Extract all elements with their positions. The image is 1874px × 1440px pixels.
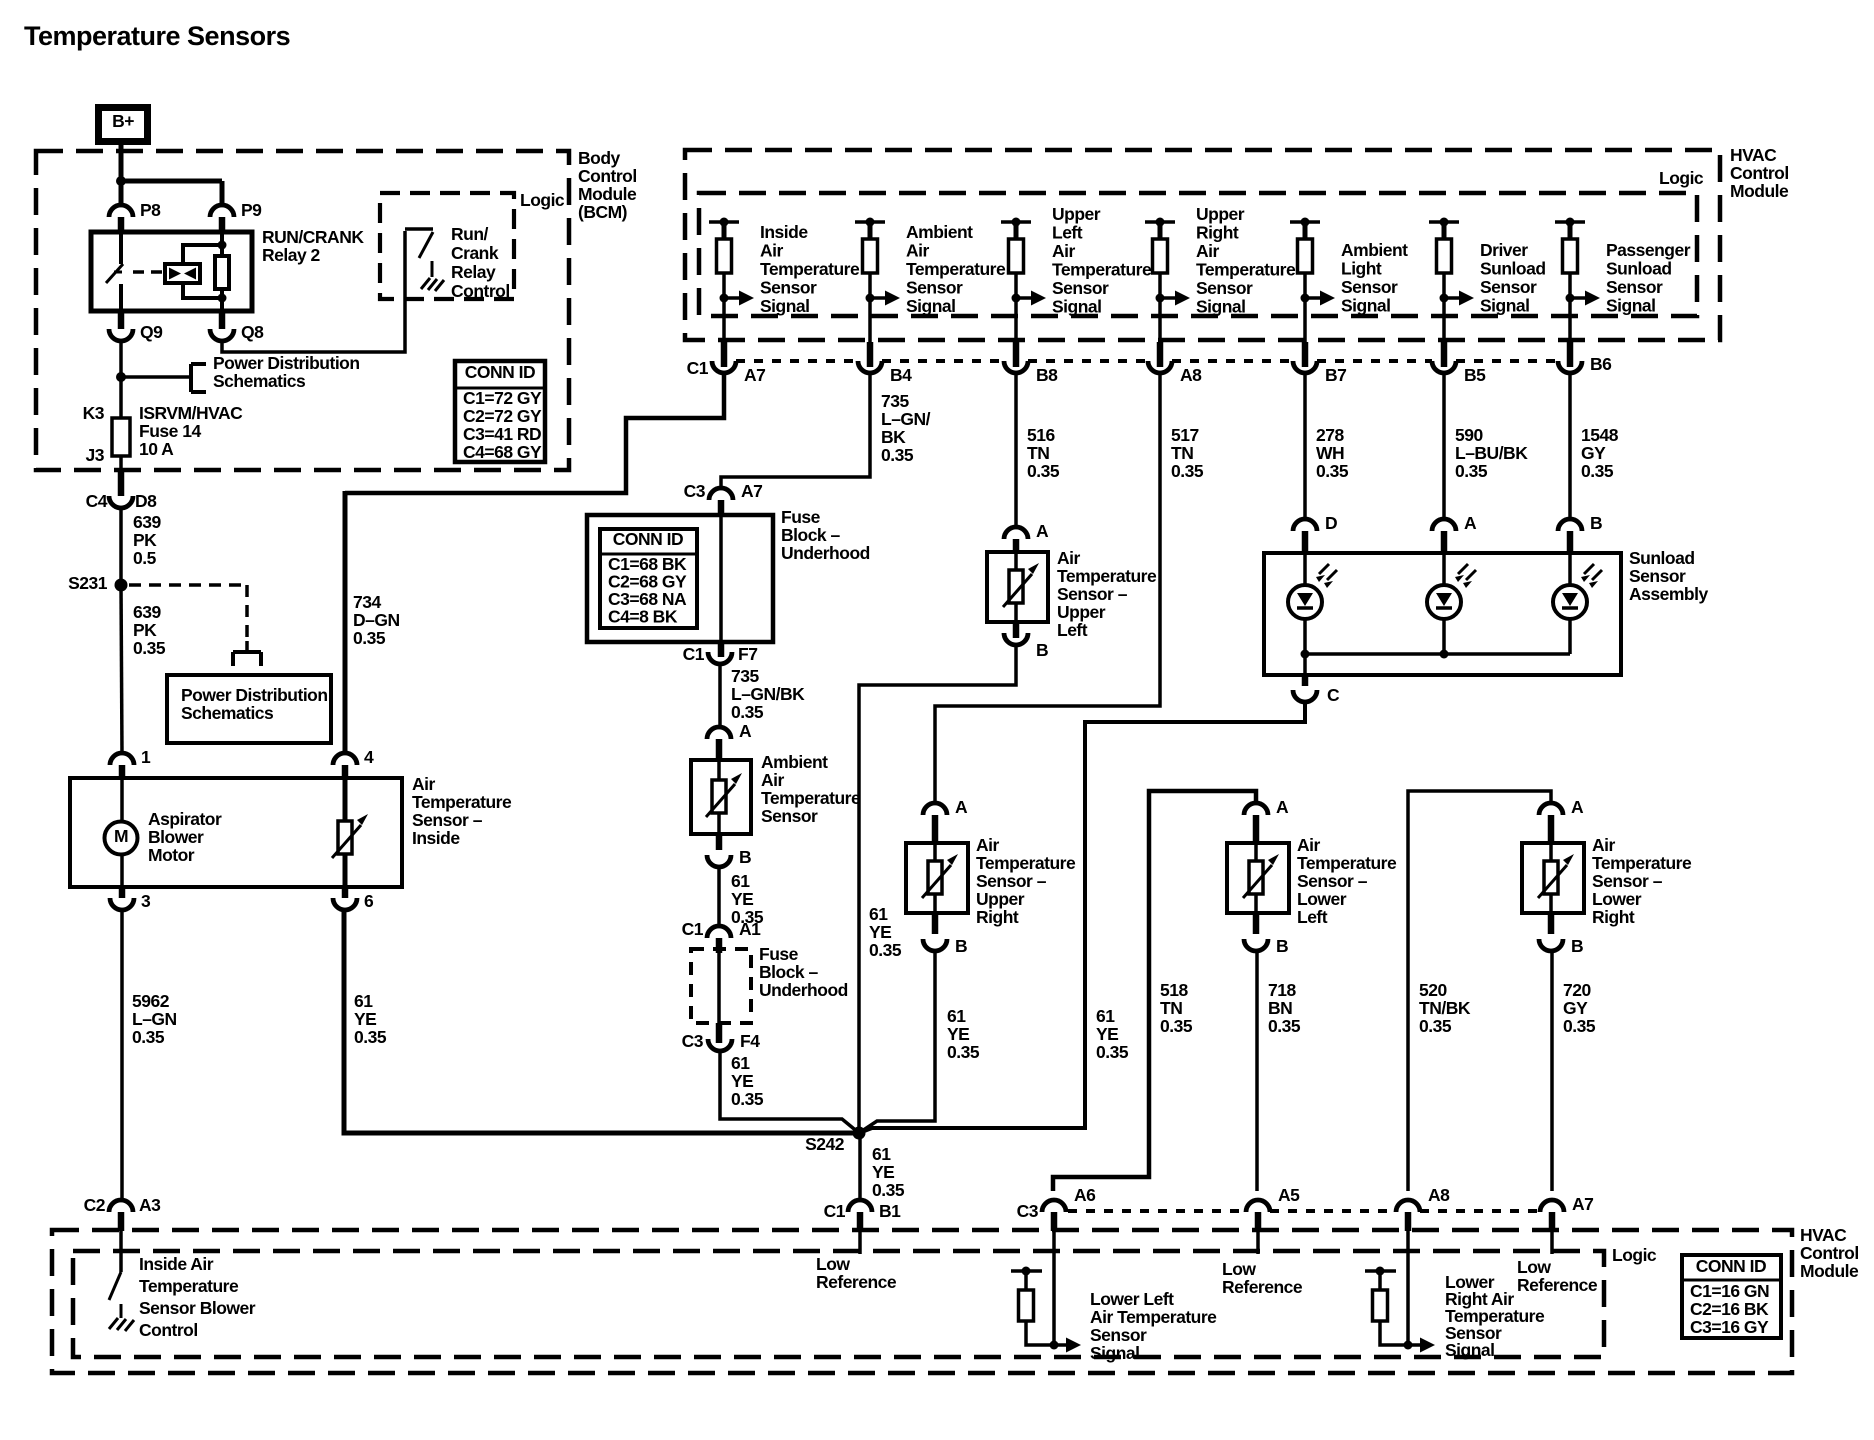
svg-text:Assembly: Assembly [1629, 584, 1708, 604]
label Air Temperature Sensor - Lower Right [1592, 835, 1692, 927]
svg-text:Lower: Lower [1297, 889, 1347, 909]
label Air Temperature Sensor - Upper Left [1057, 548, 1157, 640]
svg-text:517: 517 [1171, 425, 1199, 445]
svg-text:0.35: 0.35 [731, 1089, 764, 1109]
svg-text:Left: Left [1052, 223, 1083, 243]
pin label A8 [1180, 365, 1202, 385]
svg-text:A: A [1571, 797, 1584, 817]
connector B6 [1558, 342, 1582, 373]
svg-text:5962: 5962 [132, 991, 170, 1011]
svg-text:B1: B1 [879, 1201, 901, 1221]
svg-text:C: C [1327, 685, 1340, 705]
wire 718 BN [1255, 951, 1259, 1191]
svg-text:A: A [955, 797, 968, 817]
svg-text:Low: Low [1517, 1257, 1551, 1277]
svg-text:WH: WH [1316, 443, 1344, 463]
relay resistor [215, 256, 229, 289]
connector P8 [109, 200, 161, 233]
svg-text:PK: PK [133, 620, 157, 640]
Run/Crank Relay Control logic box [380, 193, 514, 299]
connector C1 A1 [682, 919, 762, 953]
svg-text:Sensor: Sensor [1629, 566, 1686, 586]
svg-text:RUN/CRANK: RUN/CRANK [262, 227, 364, 247]
title [24, 21, 290, 51]
svg-text:518: 518 [1160, 980, 1188, 1000]
svg-text:Control: Control [1800, 1243, 1859, 1263]
sensor signal input resistor (Upper Right) [1145, 218, 1190, 343]
label 61 YE 0.35 (upper left) [869, 904, 902, 960]
connector C4 D8 [86, 470, 158, 511]
connector B (upper left) [1004, 622, 1048, 660]
svg-text:YE: YE [869, 922, 891, 942]
svg-text:J3: J3 [86, 445, 105, 465]
svg-text:CONN ID: CONN ID [613, 529, 683, 549]
wire 61 YE blower [344, 910, 853, 1133]
label Logic (bottom) [1612, 1245, 1657, 1265]
connector 1 [110, 747, 151, 778]
svg-text:S231: S231 [68, 573, 108, 593]
svg-text:Control: Control [139, 1320, 198, 1340]
svg-text:1: 1 [141, 747, 151, 767]
relay coil link dashed [133, 270, 163, 274]
svg-text:Schematics: Schematics [213, 371, 306, 391]
connector dashed line (bottom row) [1068, 1209, 1540, 1213]
connector B5 [1432, 342, 1456, 373]
svg-text:Inside: Inside [760, 222, 808, 242]
svg-text:Sensor –: Sensor – [1057, 584, 1128, 604]
svg-text:Sensor: Sensor [1606, 277, 1663, 297]
label 1548 GY 0.35 [1581, 425, 1619, 481]
svg-text:C1: C1 [824, 1201, 846, 1221]
svg-text:Upper: Upper [1052, 204, 1101, 224]
wire F4 to S242 [720, 1051, 859, 1133]
svg-text:0.35: 0.35 [1563, 1016, 1596, 1036]
svg-text:Sensor Blower: Sensor Blower [139, 1298, 256, 1318]
label Air Temperature Sensor - Lower Left [1297, 835, 1397, 927]
Body Control Module (BCM) boundary [36, 151, 569, 470]
svg-text:Ambient: Ambient [761, 752, 828, 772]
pin J3 [86, 445, 105, 465]
svg-text:Left: Left [1057, 620, 1088, 640]
svg-text:Air: Air [760, 241, 784, 261]
svg-text:Underhood: Underhood [781, 543, 870, 563]
svg-text:Fuse: Fuse [781, 507, 821, 527]
wire to power distribution ref [121, 375, 191, 379]
label Low Reference (A5) [1222, 1259, 1303, 1297]
svg-text:0.35: 0.35 [1419, 1016, 1452, 1036]
label Logic (BCM) [520, 190, 565, 210]
svg-text:Run/: Run/ [451, 224, 489, 244]
label C1 (HVAC top) [687, 358, 709, 378]
Power Distribution Schematics box [167, 675, 331, 743]
svg-text:Module: Module [1730, 181, 1789, 201]
wire P9 to resistor [220, 233, 224, 311]
Air Temperature Sensor - Upper Left box [987, 552, 1048, 622]
svg-text:YE: YE [947, 1024, 969, 1044]
svg-text:Body: Body [578, 148, 621, 168]
label 517 TN 0.35 [1171, 425, 1204, 481]
label HVAC Control Module (bottom) [1800, 1225, 1859, 1281]
wire 734 D-GN vertical [343, 491, 348, 754]
svg-text:C3: C3 [684, 481, 706, 501]
wire B+ to splice [119, 145, 124, 181]
fuse K3 ISRVM/HVAC Fuse 14 [112, 418, 130, 456]
svg-text:734: 734 [353, 592, 381, 612]
thermistor Air Temperature Sensor - Inside [332, 814, 368, 858]
svg-text:61: 61 [354, 991, 373, 1011]
svg-text:Sensor –: Sensor – [976, 871, 1047, 891]
svg-text:YE: YE [354, 1009, 376, 1029]
svg-text:C2=16 BK: C2=16 BK [1690, 1299, 1769, 1319]
svg-text:YE: YE [1096, 1024, 1118, 1044]
relay coil wiring [183, 245, 222, 298]
svg-text:Module: Module [1800, 1261, 1859, 1281]
svg-text:Motor: Motor [148, 845, 195, 865]
label 639 PK 0.5 [133, 512, 161, 568]
svg-text:Low: Low [1222, 1259, 1256, 1279]
svg-text:B: B [1276, 936, 1288, 956]
wire upper left B to S242 [859, 645, 1016, 1133]
svg-text:Signal: Signal [1341, 296, 1391, 316]
lower left signal resistor [1011, 1267, 1081, 1353]
svg-text:C4=8 BK: C4=8 BK [608, 607, 678, 627]
svg-text:(BCM): (BCM) [578, 202, 627, 222]
Fuse Block - Underhood box [587, 515, 773, 642]
svg-text:516: 516 [1027, 425, 1055, 445]
svg-text:A8: A8 [1428, 1185, 1450, 1205]
wire through lower left sensor [1254, 843, 1258, 913]
svg-text:Logic: Logic [520, 190, 565, 210]
connector A5 [1246, 1185, 1300, 1231]
wire A8 to upper right sensor [935, 372, 1160, 804]
pin label B5 [1464, 365, 1486, 385]
connector C3 F4 [682, 1023, 761, 1051]
svg-text:Relay: Relay [451, 262, 496, 282]
Ambient Air Temperature Sensor box [691, 760, 751, 834]
HVAC Control Module boundary (bottom) [52, 1230, 1792, 1373]
svg-text:Signal: Signal [1606, 296, 1656, 316]
connector C3 A7 (fuse block) [684, 481, 763, 517]
svg-text:B: B [1571, 936, 1583, 956]
power distribution bracket [191, 364, 206, 392]
svg-text:Signal: Signal [1480, 296, 1530, 316]
svg-text:F7: F7 [738, 644, 757, 664]
svg-text:L–GN: L–GN [132, 1009, 177, 1029]
svg-text:Temperature: Temperature [976, 853, 1076, 873]
svg-text:0.35: 0.35 [133, 638, 166, 658]
svg-text:L–GN/BK: L–GN/BK [731, 684, 805, 704]
svg-text:735: 735 [731, 666, 759, 686]
connector B7 [1293, 342, 1317, 373]
svg-text:C4: C4 [86, 491, 108, 511]
svg-text:Reference: Reference [1222, 1277, 1303, 1297]
connector A (sunload) [1432, 513, 1477, 555]
svg-text:HVAC: HVAC [1730, 145, 1777, 165]
svg-text:Right: Right [976, 907, 1019, 927]
svg-text:0.35: 0.35 [1455, 461, 1488, 481]
label 735 L-GN/BK 0.35 [731, 666, 805, 722]
svg-text:A: A [739, 721, 752, 741]
wire 735 L-GN/BK [718, 664, 722, 728]
thermistor Air Temperature Sensor - Upper Left [1003, 563, 1039, 607]
svg-text:0.35: 0.35 [1268, 1016, 1301, 1036]
wire A7 low reference [1550, 1231, 1554, 1254]
svg-text:Signal: Signal [1445, 1340, 1495, 1360]
svg-text:0.35: 0.35 [354, 1027, 387, 1047]
pin K3 [83, 403, 105, 423]
svg-text:BN: BN [1268, 998, 1292, 1018]
node B+ branch [116, 176, 222, 206]
svg-text:Lower: Lower [1592, 889, 1642, 909]
label Inside Air Temperature Sensor Blower Control [139, 1254, 256, 1340]
svg-text:0.35: 0.35 [947, 1042, 980, 1062]
label 61 YE 0.35 (upper right) [947, 1006, 980, 1062]
svg-text:61: 61 [731, 1053, 750, 1073]
ground (logic) [421, 261, 444, 291]
svg-text:Q8: Q8 [241, 322, 264, 342]
wire A6 signal [1052, 1231, 1056, 1345]
svg-text:A7: A7 [1572, 1194, 1593, 1214]
svg-text:Aspirator: Aspirator [148, 809, 222, 829]
blower control switch [109, 1231, 121, 1300]
svg-text:A: A [1464, 513, 1477, 533]
svg-text:YE: YE [731, 1071, 753, 1091]
svg-text:Reference: Reference [816, 1272, 897, 1292]
svg-text:Block –: Block – [781, 525, 841, 545]
svg-text:Temperature: Temperature [761, 788, 861, 808]
svg-text:Signal: Signal [1052, 297, 1102, 317]
label 516 TN 0.35 [1027, 425, 1060, 481]
svg-text:720: 720 [1563, 980, 1591, 1000]
svg-text:Blower: Blower [148, 827, 204, 847]
wire sunload D branch [1303, 553, 1307, 654]
svg-text:Temperature Sensors: Temperature Sensors [24, 21, 290, 51]
label 61 YE 0.35 (S242) [872, 1144, 905, 1200]
svg-text:61: 61 [947, 1006, 966, 1026]
svg-text:0.35: 0.35 [731, 702, 764, 722]
svg-text:Power Distribution: Power Distribution [181, 685, 328, 705]
label 278 WH 0.35 [1316, 425, 1349, 481]
wire A8 signal [1406, 1231, 1410, 1345]
fuse block CONN ID table [600, 529, 697, 628]
svg-text:Q9: Q9 [140, 322, 163, 342]
pin label B6 [1590, 354, 1612, 374]
connector A8 [1148, 342, 1172, 373]
connector C2 A3 [84, 1195, 162, 1231]
label Inside Air Temperature Sensor Signal [760, 222, 860, 316]
svg-text:1548: 1548 [1581, 425, 1619, 445]
connector Q8 [210, 311, 264, 342]
svg-text:Logic: Logic [1612, 1245, 1657, 1265]
svg-text:520: 520 [1419, 980, 1447, 1000]
svg-text:0.35: 0.35 [869, 940, 902, 960]
svg-text:P8: P8 [140, 200, 161, 220]
photodiode (right) [1553, 564, 1602, 619]
svg-text:B: B [1036, 640, 1048, 660]
wire through dashed fuse block [717, 949, 721, 1023]
splice S231 [68, 573, 127, 593]
svg-text:61: 61 [1096, 1006, 1115, 1026]
svg-text:A7: A7 [741, 481, 762, 501]
svg-text:61: 61 [872, 1144, 891, 1164]
svg-text:Air: Air [761, 770, 785, 790]
label Driver Sunload Sensor Signal [1480, 240, 1546, 316]
wire to fuse [119, 377, 123, 420]
thermistor Ambient Air Temperature Sensor [706, 773, 742, 817]
svg-text:TN: TN [1171, 443, 1193, 463]
wire through lower right sensor [1549, 843, 1553, 913]
wire to P8 [119, 181, 124, 206]
label Ambient Light Sensor Signal [1341, 240, 1408, 316]
svg-text:Air: Air [412, 774, 436, 794]
connector B (lower left) [1244, 913, 1288, 956]
svg-text:Sensor: Sensor [760, 278, 817, 298]
svg-text:C3: C3 [682, 1031, 704, 1051]
Logic boundary (top) [699, 193, 1697, 316]
svg-text:Lower Left: Lower Left [1090, 1289, 1174, 1309]
relay switch pole [106, 233, 123, 311]
photodiode (middle) [1427, 564, 1476, 619]
svg-text:Reference: Reference [1517, 1275, 1598, 1295]
label Air Temperature Sensor - Upper Right [976, 835, 1076, 927]
svg-text:Temperature: Temperature [1052, 260, 1152, 280]
svg-text:B+: B+ [112, 111, 134, 131]
svg-text:D–GN: D–GN [353, 610, 400, 630]
label Fuse Block - Underhood [781, 507, 870, 563]
photodiode (left) [1288, 564, 1337, 619]
svg-text:A6: A6 [1074, 1185, 1096, 1205]
svg-text:0.35: 0.35 [872, 1180, 905, 1200]
relay coil [165, 264, 200, 283]
label 734 D-GN 0.35 [353, 592, 400, 648]
label Upper Right Air Temperature Sensor Signal [1196, 204, 1296, 317]
wire through fuse block [719, 515, 723, 642]
thermistor Air Temperature Sensor - Lower Left [1243, 854, 1279, 898]
wire 5962 L-GN [120, 910, 124, 1201]
wire sunload B branch [1568, 553, 1572, 654]
pin label B8 [1036, 365, 1058, 385]
wire 734 D-GN [345, 374, 724, 493]
sensor signal input resistor (Driver Sunload) [1429, 218, 1474, 343]
svg-text:L–BU/BK: L–BU/BK [1455, 443, 1528, 463]
svg-text:735: 735 [881, 391, 909, 411]
BCM CONN ID table [455, 361, 545, 462]
svg-text:A: A [1276, 797, 1289, 817]
svg-text:Signal: Signal [906, 296, 956, 316]
svg-text:C3=41 RD: C3=41 RD [463, 424, 541, 444]
lower right signal resistor [1365, 1267, 1435, 1353]
svg-text:CONN ID: CONN ID [465, 362, 535, 382]
svg-text:Power Distribution: Power Distribution [213, 353, 360, 373]
sunload common bus [1301, 650, 1571, 659]
svg-text:Low: Low [816, 1254, 850, 1274]
svg-text:Temperature: Temperature [1592, 853, 1692, 873]
svg-text:3: 3 [141, 891, 151, 911]
svg-text:P9: P9 [241, 200, 262, 220]
wire 720 GY [1550, 951, 1554, 1191]
svg-text:B4: B4 [890, 365, 912, 385]
svg-text:Driver: Driver [1480, 240, 1528, 260]
svg-text:Air: Air [1297, 835, 1321, 855]
svg-text:Inside: Inside [412, 828, 460, 848]
Air Temperature Sensor - Upper Right box [906, 843, 968, 913]
svg-text:Underhood: Underhood [759, 980, 848, 1000]
svg-text:Light: Light [1341, 259, 1382, 279]
label Power Distribution Schematics (BCM) [213, 353, 360, 391]
connector A (lower left) [1244, 797, 1289, 845]
svg-text:GY: GY [1581, 443, 1606, 463]
connector A (upper right) [923, 797, 968, 845]
wire 61 YE (ambient) [717, 867, 721, 928]
connector D (sunload) [1293, 513, 1337, 555]
wire lower left A stair [1053, 791, 1256, 1191]
label Air Temperature Sensor - Inside [412, 774, 512, 848]
svg-text:Air Temperature: Air Temperature [1090, 1307, 1217, 1327]
label Run/Crank Relay Control [451, 224, 510, 301]
svg-text:Sunload: Sunload [1629, 548, 1695, 568]
svg-text:Fuse: Fuse [759, 944, 799, 964]
svg-text:0.35: 0.35 [1027, 461, 1060, 481]
label ISRVM/HVAC Fuse 14 10 A [139, 403, 243, 459]
svg-text:HVAC: HVAC [1800, 1225, 1847, 1245]
svg-text:A: A [1036, 521, 1049, 541]
wire B6 to sunload B [1568, 372, 1572, 520]
connector A (ambient) [707, 721, 752, 762]
label Ambient Air Temperature Sensor [761, 752, 861, 826]
svg-text:Upper: Upper [1057, 602, 1106, 622]
svg-text:C1: C1 [683, 644, 705, 664]
svg-text:BK: BK [881, 427, 906, 447]
Fuse Block - Underhood dashed box [691, 949, 751, 1023]
svg-text:0.35: 0.35 [353, 628, 386, 648]
label 520 TN/BK 0.35 [1419, 980, 1471, 1036]
wire B4 to fuse block [721, 372, 870, 489]
label Lower Right Air Temperature Sensor Signal [1445, 1272, 1545, 1360]
svg-text:6: 6 [364, 891, 374, 911]
svg-text:0.35: 0.35 [1171, 461, 1204, 481]
connector A (upper left) [1004, 521, 1049, 554]
svg-text:D8: D8 [135, 491, 157, 511]
sensor signal input resistor (Ambient Light) [1290, 218, 1335, 343]
svg-text:Air: Air [1057, 548, 1081, 568]
sensor signal input resistor (Passenger Sunload) [1555, 218, 1600, 343]
svg-text:Upper: Upper [1196, 204, 1245, 224]
wire B7 to sunload D [1303, 372, 1307, 520]
svg-text:4: 4 [364, 747, 374, 767]
wire through upper left sensor [1014, 552, 1018, 622]
svg-text:Sensor: Sensor [1052, 278, 1109, 298]
label 735 L-GN/BK 0.35 (B4) [881, 391, 931, 465]
svg-text:B: B [955, 936, 967, 956]
svg-text:718: 718 [1268, 980, 1296, 1000]
svg-text:Ambient: Ambient [906, 222, 973, 242]
svg-text:CONN ID: CONN ID [1696, 1256, 1766, 1276]
label RUN/CRANK Relay 2 [262, 227, 364, 265]
svg-text:C2=72 GY: C2=72 GY [463, 406, 542, 426]
connector B8 [1004, 342, 1028, 373]
pin label A7 [744, 365, 765, 385]
svg-text:Signal: Signal [1196, 297, 1246, 317]
svg-text:Signal: Signal [1090, 1343, 1140, 1363]
svg-text:Sunload: Sunload [1480, 259, 1546, 279]
connector B (sunload) [1558, 513, 1602, 555]
label Body Control Module (BCM) [578, 148, 637, 222]
connector A8 (bottom) [1396, 1185, 1450, 1231]
node coil top [218, 241, 227, 250]
wire B5 to sunload A [1442, 372, 1446, 520]
svg-text:Sensor –: Sensor – [412, 810, 483, 830]
Logic boundary (bottom) [73, 1251, 1604, 1357]
